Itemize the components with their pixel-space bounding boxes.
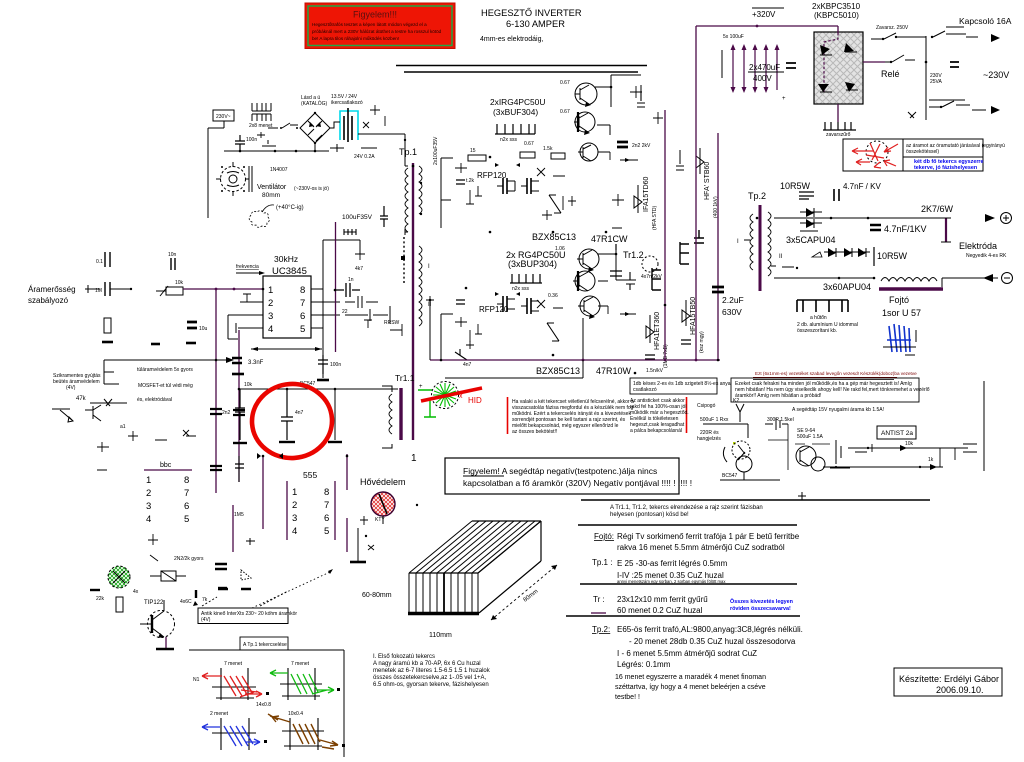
Tr1.2 core circle	[626, 256, 663, 290]
diode D HFA top1	[634, 176, 658, 230]
svg-text:4: 4	[268, 324, 273, 335]
svg-text:30kHz: 30kHz	[274, 254, 298, 264]
svg-text:a hűtőn: a hűtőn	[810, 315, 827, 321]
svg-text:4x6C: 4x6C	[180, 599, 192, 605]
label +320V	[752, 8, 784, 19]
svg-text:25VA: 25VA	[930, 79, 943, 85]
gate network extras row1	[455, 163, 576, 220]
svg-text:a1: a1	[120, 424, 126, 430]
wire output top	[774, 217, 946, 220]
svg-text:Ventilátor: Ventilátor	[257, 184, 287, 191]
gate resistors row1	[468, 146, 565, 161]
svg-text:+: +	[782, 96, 786, 102]
E core glyph 2	[680, 242, 689, 264]
capacitor C 1M row	[85, 282, 132, 296]
wire bottom black	[430, 300, 583, 378]
svg-text:Relé: Relé	[881, 69, 900, 79]
label Elektroda	[959, 241, 1007, 259]
svg-text:(+40°C-ig): (+40°C-ig)	[276, 205, 304, 211]
svg-text:6: 6	[324, 513, 329, 524]
IC pin wires right	[311, 289, 400, 328]
svg-text:röviden összecsavarva!: röviden összecsavarva!	[730, 606, 791, 612]
svg-text:TIP122: TIP122	[144, 600, 164, 606]
resistor 10R5W lower	[874, 247, 908, 266]
note paragraph with red bar	[508, 397, 634, 435]
warning box Figyelem	[305, 3, 455, 49]
svg-text:bbc: bbc	[160, 462, 172, 469]
svg-text:be! A lapra tilos ráhajolni mű: be! A lapra tilos ráhajolni működés közb…	[312, 36, 399, 41]
svg-text:próbáknál mert a 230V hálózat: próbáknál mert a 230V hálózat átüthet a …	[312, 29, 442, 34]
label Tp.1	[399, 147, 417, 157]
svg-text:Antik kineő InterXts 230~ 20 k: Antik kineő InterXts 230~ 20 kóhm áramkö…	[201, 611, 297, 617]
RC under IC	[232, 347, 341, 380]
svg-text:túláramvédelem 5x gyors: túláramvédelem 5x gyors	[137, 367, 193, 373]
svg-text:230V~: 230V~	[216, 114, 231, 120]
IC area extras	[228, 248, 402, 339]
svg-text:testbe! !: testbe! !	[615, 694, 640, 701]
svg-text:Tr :: Tr :	[593, 595, 605, 604]
svg-text:22k: 22k	[96, 596, 105, 602]
svg-text:menetek az 6-7 literes 1.5-6.: menetek az 6-7 literes 1.5-6.5 1.5 1 huz…	[373, 668, 491, 674]
svg-text:Csipogó: Csipogó	[697, 403, 716, 409]
svg-text:Összes kivezetés legyen: Összes kivezetés legyen	[730, 598, 793, 605]
annotation texts overcurrent	[53, 367, 193, 403]
extras near bbc	[97, 424, 196, 561]
thermal cloud	[249, 205, 303, 227]
svg-text:2xKBPC3510: 2xKBPC3510	[812, 2, 861, 11]
svg-text:E 25 -30-as ferrit légrés 0.5: E 25 -30-as ferrit légrés 0.5mm	[617, 559, 728, 568]
vertical wire right of IC	[323, 240, 360, 378]
label 230V	[983, 70, 1009, 80]
label Aramerosseg szabalyozo	[28, 285, 76, 305]
antistick right wires	[823, 441, 977, 470]
capacitor 100n input	[235, 135, 257, 151]
svg-text:1.5k: 1.5k	[543, 146, 553, 152]
svg-text:10u: 10u	[199, 326, 208, 332]
svg-text:(KBPC5010): (KBPC5010)	[814, 11, 859, 20]
svg-text:1k: 1k	[928, 457, 934, 463]
svg-text:8: 8	[300, 285, 305, 296]
svg-text:(4V): (4V)	[66, 385, 76, 391]
table row4 Tp2	[592, 625, 803, 701]
svg-text:6.5 ohm-os, gyorsan tekerve, f: 6.5 ohm-os, gyorsan tekerve, fázishelyes…	[373, 682, 489, 688]
svg-text:1db késes 2-es és 1db szigetel: 1db késes 2-es és 1db szigetelt 8½-es an…	[633, 380, 731, 387]
table lines	[566, 492, 930, 616]
label Kapcsolo 16A	[959, 16, 1012, 26]
snubber parts mid	[612, 86, 684, 228]
svg-text:3: 3	[268, 311, 273, 322]
svg-text:és, elektródával: és, elektródával	[137, 397, 172, 403]
svg-text:összekötéssel): összekötéssel)	[906, 149, 939, 155]
svg-text:HEGESZTŐ INVERTER: HEGESZTŐ INVERTER	[481, 8, 582, 18]
svg-text:0.67: 0.67	[524, 141, 534, 147]
svg-text:RRSW: RRSW	[384, 320, 400, 326]
svg-text:Régi Tv sorkimenő ferrit trafó: Régi Tv sorkimenő ferrit trafója 1 pár E…	[617, 532, 800, 541]
svg-text:t.2k: t.2k	[466, 178, 475, 184]
svg-text:100uF35V: 100uF35V	[342, 214, 373, 221]
svg-text:100n: 100n	[330, 362, 341, 368]
svg-text:beütés áramvédelem: beütés áramvédelem	[53, 379, 100, 385]
Tr1 aux winding right	[419, 166, 432, 326]
text block winding notes	[373, 654, 491, 688]
diode D HFA bot1	[645, 312, 669, 368]
labels 0.67	[524, 80, 570, 299]
svg-text:Készítette: Erdélyi Gábor: Készítette: Erdélyi Gábor	[899, 674, 999, 684]
svg-text:BZX85C13: BZX85C13	[532, 232, 576, 242]
svg-text:3: 3	[146, 501, 151, 512]
svg-text:10R5W: 10R5W	[780, 181, 811, 191]
svg-text:Figyelem! A segédtáp negatív(t: Figyelem! A segédtáp negatív(testpotenc.…	[463, 466, 657, 476]
svg-text:110mm: 110mm	[429, 632, 452, 639]
label segedtap note	[792, 407, 884, 413]
overcurrent arrow line	[104, 357, 234, 384]
svg-text:10n: 10n	[168, 252, 177, 258]
note box wide	[731, 378, 930, 402]
svg-text:összes összetekercselve,az 1-: összes összetekercselve,az 1-.05 vel 1+A…	[373, 675, 487, 681]
svg-text:(1MB 7xB): (1MB 7xB)	[663, 344, 669, 368]
svg-text:annyi menetszám egy sorban, 2: annyi menetszám egy sorban, 2 sorban egy…	[617, 579, 726, 584]
svg-text:Légrés: 0.1mm: Légrés: 0.1mm	[617, 660, 671, 669]
capacitor inside circle	[279, 389, 304, 442]
svg-text:UC3845: UC3845	[272, 266, 307, 277]
svg-text:5: 5	[324, 526, 329, 537]
svg-text:ANTIST 2a: ANTIST 2a	[881, 430, 913, 437]
svg-text:10k: 10k	[905, 441, 914, 447]
separator double lines	[396, 66, 647, 73]
transistor Q TIP	[140, 600, 175, 649]
svg-text:4x7n/2kV: 4x7n/2kV	[641, 274, 663, 280]
wire input left	[208, 121, 224, 218]
svg-text:630V: 630V	[722, 307, 742, 317]
svg-text:- 20 menet 28db 0.35 CuZ: - 20 menet 28db 0.35 CuZ huzal összesodo…	[629, 637, 796, 646]
box ANTIST	[877, 426, 916, 439]
svg-text:4mm-es elektrodáig,: 4mm-es elektrodáig,	[480, 36, 543, 43]
label Tr1.1	[395, 373, 415, 383]
label 2xIRG4PC50U top	[490, 97, 545, 117]
svg-text:E65-ös ferrit trafó,AL:9800,an: E65-ös ferrit trafó,AL:9800,anyag:3C8,lé…	[617, 625, 803, 634]
diode set lower	[812, 248, 871, 292]
svg-text:Zavarsz. 250V: Zavarsz. 250V	[876, 25, 909, 31]
svg-text:4: 4	[292, 526, 297, 537]
misc small marks top	[262, 140, 377, 173]
gate comb top	[495, 124, 535, 143]
svg-text:2x470uF: 2x470uF	[749, 63, 780, 72]
capacitor 4.7nF2KV	[834, 182, 881, 201]
svg-text:csatlakozó: csatlakozó	[633, 387, 657, 393]
svg-text:2K7/6W: 2K7/6W	[921, 204, 954, 214]
warning box segedtap	[445, 458, 692, 494]
wire mains vertical	[926, 36, 959, 120]
svg-text:0.67: 0.67	[560, 80, 570, 86]
svg-text:szabályozó: szabályozó	[28, 296, 69, 305]
switch mains top	[871, 25, 1000, 42]
svg-text:2xIRG4PC50U: 2xIRG4PC50U	[490, 97, 545, 107]
misc labels near TIP	[180, 589, 251, 606]
svg-text:Tr1.1: Tr1.1	[395, 373, 415, 383]
winding diagram blue	[202, 711, 267, 750]
title text	[480, 8, 582, 43]
terminal plus	[985, 213, 1012, 224]
svg-text:7 menet: 7 menet	[224, 661, 243, 667]
svg-text:23x12x10 mm ferrit gyűrű: 23x12x10 mm ferrit gyűrű	[617, 595, 708, 604]
note box small left	[630, 378, 731, 394]
svg-text:x: x	[459, 393, 463, 400]
wire pot to pin1 (purple)	[183, 288, 263, 291]
svg-text:áramkör!! Amíg nem hibátlan a: áramkör!! Amíg nem hibátlan a próbád!	[735, 393, 821, 399]
svg-text:az összes bekötést!!: az összes bekötést!!	[512, 429, 557, 435]
svg-text:500uF 1.5A: 500uF 1.5A	[797, 434, 824, 440]
LED green indicator	[90, 566, 139, 602]
diode at rail bottom	[455, 349, 472, 368]
Tr1 primary winding	[404, 134, 408, 235]
rail HV right x696	[695, 26, 697, 360]
svg-text:14x0.8: 14x0.8	[256, 702, 271, 708]
svg-text:2x100uF35V: 2x100uF35V	[433, 136, 439, 165]
wire output bottom	[774, 277, 998, 287]
svg-text:7: 7	[184, 488, 189, 499]
winding diagram red N1	[193, 661, 271, 708]
IC table bbc	[144, 462, 192, 525]
ferrite blue scribble	[883, 324, 916, 355]
svg-text:Áramerősség: Áramerősség	[28, 285, 76, 294]
svg-text:4n7: 4n7	[463, 362, 472, 368]
svg-text:Ezt (6x1mm-es) vezetéket szaba: Ezt (6x1mm-es) vezetéket szabad levegőn …	[755, 371, 917, 376]
antistick circuit	[697, 398, 850, 480]
heatsink comb symbol	[797, 300, 858, 334]
label 2xKBPC3510	[812, 2, 861, 20]
node 1	[411, 453, 417, 464]
wires IGBT top to rails	[595, 75, 641, 135]
box Keszitette	[894, 668, 1002, 696]
winding area bracket	[189, 637, 344, 757]
fan Ventilator	[216, 162, 252, 196]
E core glyph 1	[652, 268, 661, 290]
driver rail left	[433, 136, 453, 360]
box Szikramentesseg	[198, 569, 333, 624]
wire bottom bus	[224, 143, 329, 152]
svg-text:n2x sss: n2x sss	[500, 137, 517, 143]
svg-text:Negyedik 4-es RK: Negyedik 4-es RK	[966, 253, 1007, 259]
transistor sketch small	[52, 405, 101, 422]
svg-text:a pálca bekapcsolásnál: a pálca bekapcsolásnál	[630, 428, 682, 434]
gate comb row2	[510, 274, 542, 292]
svg-text:1: 1	[292, 487, 297, 498]
svg-text:Tr1.2: Tr1.2	[623, 250, 644, 260]
choke below bridge	[823, 104, 856, 138]
connector 230V input box	[213, 110, 234, 121]
svg-text:kapcsolatban a fő áramkör (320: kapcsolatban a fő áramkör (320V) Negatív…	[463, 478, 692, 488]
svg-text:0.67: 0.67	[560, 109, 570, 115]
mosfet pair row2	[497, 296, 539, 314]
svg-text:A Tr1.1, Tr1.2, tekercs elrend: A Tr1.1, Tr1.2, tekercs elrendezése a ra…	[610, 505, 763, 511]
resistor vertical bottom left	[116, 597, 123, 612]
svg-text:(3xBUP304): (3xBUP304)	[508, 259, 557, 269]
heatsink 3D	[408, 521, 541, 614]
svg-text:2N2/2k gyors: 2N2/2k gyors	[174, 556, 204, 562]
svg-text:rakva 16 menet 5.5mm átmérő: rakva 16 menet 5.5mm átmérőjű CuZ sodrat…	[617, 543, 785, 552]
label Ventilator	[257, 184, 329, 199]
rail purple mid x335	[336, 222, 357, 352]
Tr1 winding dashes	[401, 237, 405, 285]
svg-text:4n7: 4n7	[295, 410, 304, 416]
svg-text:Tp.2:: Tp.2:	[592, 625, 610, 634]
capacitor left of circle	[233, 389, 247, 443]
diode box small	[150, 571, 186, 581]
table row1 Fojto	[594, 532, 800, 552]
label 30kHz UC3845	[272, 254, 307, 277]
svg-text:2n2: 2n2	[222, 410, 231, 416]
svg-text:N1: N1	[193, 677, 200, 683]
ground bars left row	[102, 342, 196, 344]
svg-text:1.06: 1.06	[555, 246, 565, 252]
svg-text:Figyelem!!!: Figyelem!!!	[353, 10, 397, 20]
svg-text:10k: 10k	[244, 382, 253, 388]
svg-text:Tp.1: Tp.1	[399, 147, 417, 157]
collector stubs	[598, 152, 638, 316]
svg-text:7k: 7k	[202, 597, 208, 603]
svg-text:15: 15	[470, 148, 476, 154]
capacitor bank 2x470uF	[722, 34, 796, 102]
svg-text:1M5: 1M5	[234, 512, 244, 518]
svg-text:7: 7	[324, 500, 329, 511]
svg-text:II: II	[779, 254, 783, 260]
svg-text:60-80mm: 60-80mm	[362, 592, 392, 599]
diode set upper	[786, 208, 836, 269]
resistor 47k	[76, 396, 127, 406]
svg-text:(3xBUF304): (3xBUF304)	[493, 107, 538, 117]
svg-text:Kapcsoló 16A: Kapcsoló 16A	[959, 16, 1012, 26]
terminal minus	[983, 273, 1013, 284]
svg-text:1: 1	[146, 475, 151, 486]
thermal switch red	[371, 492, 395, 523]
svg-text:4: 4	[146, 514, 151, 525]
Tr1.1 secondary core	[382, 386, 401, 448]
red strike mark	[421, 388, 482, 405]
svg-text:10R5W: 10R5W	[877, 251, 908, 261]
IC U1 UC3845	[263, 276, 311, 338]
svg-text:0.1: 0.1	[96, 259, 103, 265]
diode D HFA top2	[694, 148, 719, 243]
svg-text:~230V: ~230V	[983, 70, 1009, 80]
svg-text:5: 5	[184, 514, 189, 525]
svg-text:I. Első fokozatú tekercs: I. Első fokozatú tekercs	[373, 654, 435, 660]
potentiometer 10k	[156, 280, 184, 296]
transformer Tp2 core	[737, 205, 783, 291]
inductor Fojto	[879, 278, 943, 319]
svg-text:0.36: 0.36	[548, 293, 558, 299]
extras mid bottom	[360, 296, 837, 550]
rail x718	[717, 133, 719, 360]
ground below thermal	[350, 516, 383, 562]
label Tr1.2	[623, 250, 644, 260]
svg-text:6: 6	[184, 501, 189, 512]
rail purple vertical B	[238, 330, 240, 482]
wire horizontal y389	[240, 381, 398, 390]
svg-text:IFA15TD60: IFA15TD60	[643, 176, 650, 212]
capacitor 1n coupling	[335, 277, 360, 297]
svg-text:+320V: +320V	[752, 10, 776, 19]
svg-text:ikercsatlakozó: ikercsatlakozó	[331, 100, 363, 106]
label RFP120 row2	[479, 305, 509, 314]
svg-text:400V: 400V	[753, 74, 772, 83]
resistor 2K7 6W	[921, 204, 954, 242]
misc caps left bottom	[174, 512, 255, 588]
svg-text:Fojtó: Fojtó	[889, 295, 909, 305]
svg-text:HID: HID	[468, 396, 482, 405]
capacitor polarized 10u	[187, 322, 208, 332]
svg-text:2: 2	[146, 488, 151, 499]
svg-text:RFP120: RFP120	[479, 305, 509, 314]
svg-text:(KATALÓG): (KATALÓG)	[301, 100, 328, 107]
switch mains bottom	[908, 100, 1000, 118]
bridge rectifier small	[300, 112, 330, 144]
table row2 Tp1	[592, 558, 728, 584]
capacitor right in circle	[328, 389, 342, 442]
svg-text:5: 5	[300, 324, 305, 335]
capacitor 2.2uF 630V	[712, 287, 744, 317]
svg-text:1: 1	[411, 453, 417, 464]
svg-text:500uF 1 Rxx: 500uF 1 Rxx	[700, 417, 729, 423]
transistors IGBT top group	[574, 83, 598, 161]
svg-text:1sor U 57: 1sor U 57	[882, 308, 921, 318]
svg-text:24V 0.2A: 24V 0.2A	[354, 154, 375, 160]
svg-text:1n: 1n	[348, 277, 354, 283]
label Hovedelem	[360, 477, 406, 487]
svg-text:10x0.4: 10x0.4	[288, 711, 303, 717]
transistors IGBT bottom group	[573, 249, 600, 319]
svg-text:16 menet egyszerre a maradék 4: 16 menet egyszerre a maradék 4 menet fin…	[615, 674, 766, 681]
svg-text:100n: 100n	[246, 137, 257, 143]
svg-text:I - 6 menet 5.5mm átmérőjű: I - 6 menet 5.5mm átmérőjű sodrat CuZ	[617, 649, 757, 658]
svg-text:Hegesztőtrafós tesztet a képen: Hegesztőtrafós tesztet a képen látott mó…	[312, 22, 427, 27]
svg-text:2006.09.10.: 2006.09.10.	[936, 685, 984, 695]
capacitor = top	[617, 142, 651, 149]
svg-text:tekerve, jó fázishelyesen: tekerve, jó fázishelyesen	[914, 165, 977, 171]
svg-text:BC547: BC547	[722, 473, 738, 479]
svg-text:2: 2	[292, 500, 297, 511]
svg-text:4.7nF/1KV: 4.7nF/1KV	[884, 224, 927, 234]
winding diagram green	[270, 661, 340, 700]
label 2xRG4PC50U row2	[506, 250, 566, 269]
caps on rails A B	[210, 409, 245, 470]
diode D HFA bot2	[681, 297, 705, 353]
svg-text:3x60APU04: 3x60APU04	[823, 282, 871, 292]
capacitor Tr1.2 snubber	[610, 244, 622, 276]
svg-text:80mm: 80mm	[262, 192, 280, 199]
EMI filter choke	[249, 103, 273, 129]
darkred cable note	[753, 371, 917, 380]
wires IGBT bottom	[583, 250, 636, 360]
svg-text:(HFA STD): (HFA STD)	[652, 205, 658, 230]
svg-text:Fojtó:: Fojtó:	[594, 532, 614, 541]
label RFP120 top	[477, 171, 507, 180]
svg-text:1: 1	[268, 285, 273, 296]
svg-text:Tp.2: Tp.2	[748, 191, 766, 201]
relay contact	[863, 55, 915, 79]
capacitor small 10n	[168, 252, 177, 270]
svg-text:7 menet: 7 menet	[291, 661, 310, 667]
svg-text:4x: 4x	[133, 589, 139, 595]
table row0 note	[610, 505, 763, 518]
svg-text:(~230V-os is jó): (~230V-os is jó)	[294, 186, 329, 192]
svg-text:6: 6	[300, 311, 305, 322]
wire 320V rail top	[696, 25, 838, 28]
svg-text:4k7: 4k7	[355, 266, 363, 272]
svg-text:6-130 AMPER: 6-130 AMPER	[506, 19, 565, 29]
svg-text:7: 7	[300, 298, 305, 309]
svg-text:zavarszűrő: zavarszűrő	[826, 132, 851, 138]
svg-text:KTY: KTY	[375, 517, 385, 523]
